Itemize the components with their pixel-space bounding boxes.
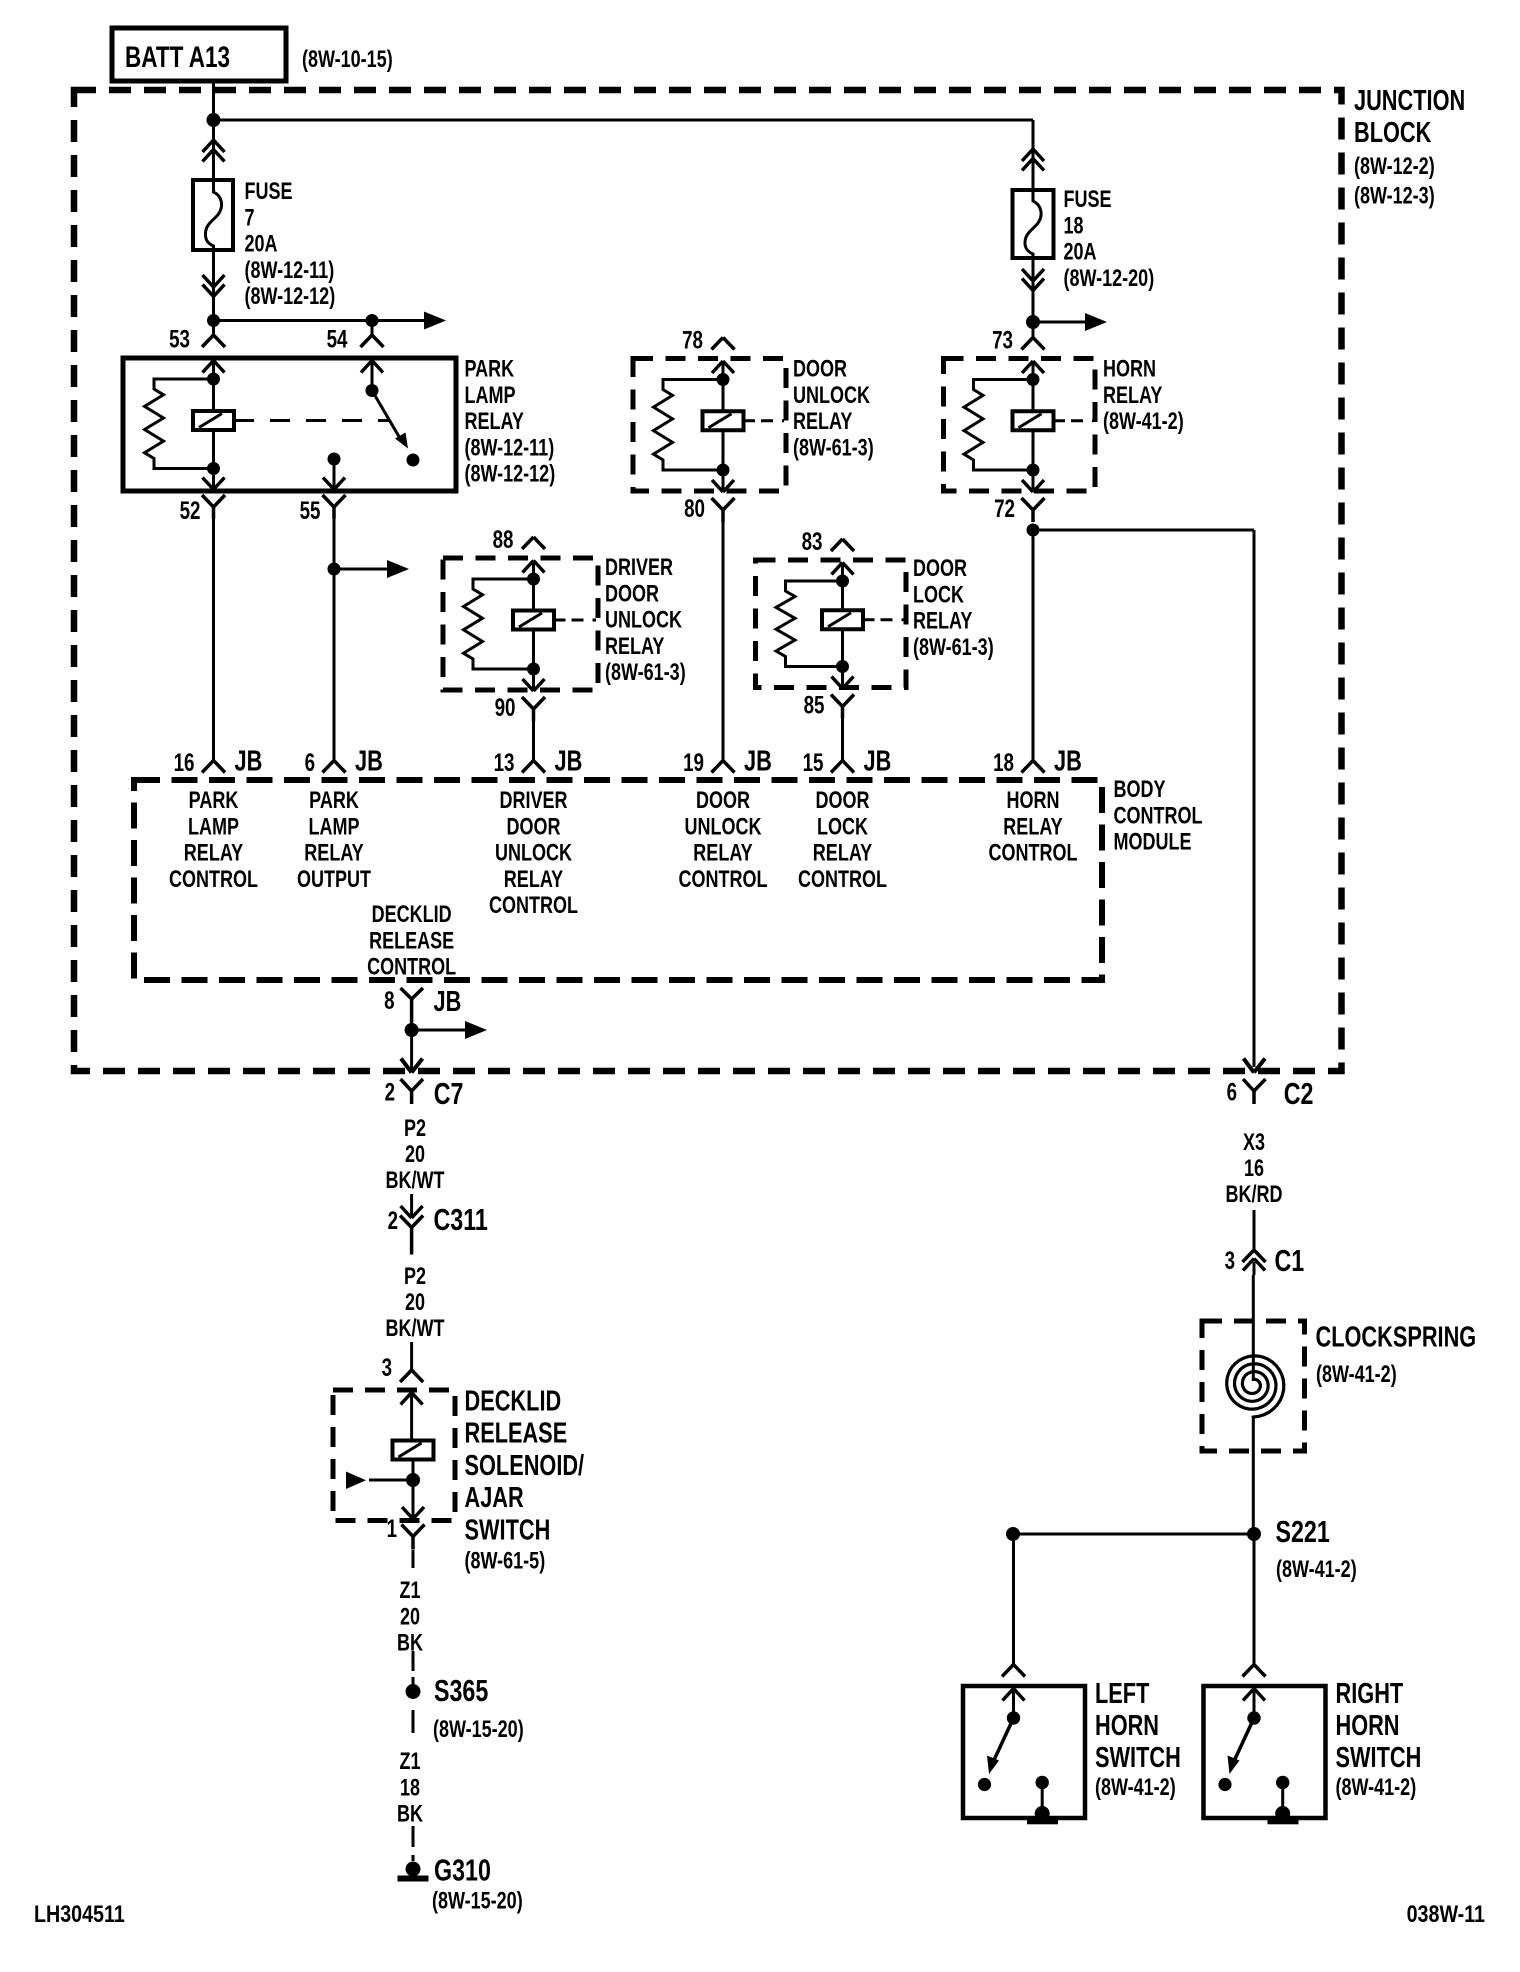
node left horn branch — [1006, 1527, 1020, 1541]
svg-text:RELAY: RELAY — [913, 608, 972, 635]
case ground — [1035, 1806, 1050, 1821]
svg-text:DOOR: DOOR — [507, 813, 561, 840]
svg-text:PARK: PARK — [189, 787, 239, 814]
svg-text:(8W-41-2): (8W-41-2) — [1276, 1556, 1357, 1583]
svg-text:FUSE: FUSE — [245, 178, 293, 205]
svg-text:(8W-15-20): (8W-15-20) — [432, 1888, 523, 1915]
junction block boundary — [74, 90, 1342, 1071]
svg-text:BK/WT: BK/WT — [386, 1315, 445, 1342]
svg-text:Z1: Z1 — [400, 1577, 421, 1604]
svg-text:BK: BK — [397, 1630, 423, 1657]
svg-text:15: 15 — [803, 749, 824, 777]
wire BATT A13 down — [212, 81, 215, 180]
svg-text:RELAY: RELAY — [793, 408, 852, 435]
switch contact — [1218, 1778, 1231, 1791]
svg-text:7: 7 — [245, 204, 255, 231]
wire — [1032, 361, 1035, 380]
svg-text:SWITCH: SWITCH — [465, 1514, 551, 1546]
svg-text:FUSE: FUSE — [1064, 186, 1112, 213]
svg-text:BK: BK — [397, 1801, 423, 1828]
connector C7 pin 2 — [401, 1059, 423, 1073]
svg-text:LH304511: LH304511 — [34, 1901, 125, 1928]
node battery bus — [207, 113, 221, 127]
wire fuse 7 to relay bus — [212, 250, 215, 335]
splice S221 — [1247, 1527, 1261, 1541]
ajar switch contact arrow — [369, 1479, 406, 1482]
svg-text:DRIVER: DRIVER — [500, 787, 568, 814]
svg-text:MODULE: MODULE — [1114, 829, 1192, 856]
pin 90 — [532, 669, 535, 691]
svg-text:(8W-12-12): (8W-12-12) — [245, 283, 336, 310]
svg-text:(8W-12-11): (8W-12-11) — [245, 257, 335, 284]
svg-text:AJAR: AJAR — [465, 1482, 524, 1514]
svg-text:6: 6 — [305, 749, 315, 777]
svg-text:HORN: HORN — [1103, 356, 1156, 383]
relay resistor — [464, 579, 534, 669]
svg-text:13: 13 — [494, 749, 515, 777]
svg-text:RELAY: RELAY — [605, 633, 664, 660]
node horn relay output — [1027, 524, 1040, 537]
svg-text:RIGHT: RIGHT — [1336, 1678, 1404, 1710]
svg-text:DECKLID: DECKLID — [372, 901, 452, 928]
node below fuse 18 — [1026, 315, 1040, 329]
relay coil node bottom — [717, 464, 730, 477]
svg-text:DOOR: DOOR — [793, 356, 847, 383]
node 53 bus — [207, 314, 220, 327]
coil linkage — [863, 618, 875, 621]
relay box — [756, 560, 907, 688]
svg-text:CONTROL: CONTROL — [679, 866, 768, 893]
svg-text:(8W-41-2): (8W-41-2) — [1316, 1361, 1397, 1388]
svg-text:JB: JB — [555, 746, 583, 778]
coil linkage — [554, 619, 566, 622]
wire segment — [412, 1826, 415, 1847]
svg-text:RELAY: RELAY — [693, 840, 752, 867]
relay coil — [1032, 380, 1035, 412]
svg-text:73: 73 — [992, 327, 1013, 355]
feed arrow right of node — [334, 568, 389, 571]
svg-text:(8W-61-3): (8W-61-3) — [793, 434, 874, 461]
svg-text:X3: X3 — [1243, 1129, 1265, 1156]
decklid pin 3 — [400, 1370, 423, 1382]
wire — [532, 561, 535, 580]
svg-text:RELAY: RELAY — [813, 840, 872, 867]
svg-text:S365: S365 — [434, 1673, 488, 1708]
decklid ajar switch node — [406, 1473, 420, 1487]
svg-text:20A: 20A — [245, 231, 278, 258]
svg-text:RELEASE: RELEASE — [465, 1418, 568, 1450]
park relay resistor — [145, 379, 214, 469]
svg-text:19: 19 — [683, 749, 704, 777]
ground G310 — [406, 1862, 421, 1877]
svg-text:85: 85 — [804, 692, 825, 720]
svg-text:OUTPUT: OUTPUT — [297, 866, 371, 893]
svg-text:RELAY: RELAY — [1103, 382, 1162, 409]
relay box — [944, 359, 1096, 492]
svg-text:RELAY: RELAY — [1003, 813, 1062, 840]
relay coil node bottom — [836, 660, 849, 673]
svg-text:JB: JB — [864, 746, 892, 778]
switch common — [1247, 1711, 1260, 1724]
relay coil — [532, 579, 535, 611]
svg-text:P2: P2 — [404, 1263, 426, 1290]
svg-text:(8W-61-3): (8W-61-3) — [913, 634, 994, 661]
pin 1 exit — [412, 1480, 415, 1517]
svg-text:(8W-41-2): (8W-41-2) — [1095, 1774, 1176, 1801]
svg-text:038W-11: 038W-11 — [1407, 1901, 1485, 1928]
svg-text:RELAY: RELAY — [184, 840, 243, 867]
pin 55 exit — [323, 478, 345, 490]
svg-text:SWITCH: SWITCH — [1336, 1742, 1422, 1774]
park relay switch arm — [372, 391, 401, 441]
svg-text:JB: JB — [235, 746, 263, 778]
svg-text:(8W-41-2): (8W-41-2) — [1336, 1774, 1417, 1801]
coil linkage dashed — [234, 419, 390, 422]
decklid release solenoid box — [333, 1390, 455, 1521]
svg-text:HORN: HORN — [1095, 1710, 1159, 1742]
svg-text:20: 20 — [400, 1603, 420, 1630]
connector arrows above fuse 18 — [1022, 149, 1044, 161]
BCM pin 8 JB — [401, 988, 424, 1030]
svg-text:DRIVER: DRIVER — [605, 554, 673, 581]
fuse F18 20A — [1013, 190, 1054, 258]
svg-text:DECKLID: DECKLID — [465, 1386, 562, 1418]
wire branch to pin 54 and feed arrow — [214, 319, 373, 322]
coil linkage — [1054, 419, 1066, 422]
relay coil node top — [717, 373, 730, 386]
svg-text:LAMP: LAMP — [309, 813, 360, 840]
pin 3 terminal inside — [401, 1393, 423, 1405]
svg-text:JB: JB — [355, 746, 383, 778]
svg-text:54: 54 — [327, 326, 348, 354]
decklid solenoid coil — [393, 1441, 434, 1460]
park relay coil node top — [207, 373, 220, 386]
case ground — [1275, 1806, 1290, 1821]
terminal inside — [1243, 1689, 1265, 1701]
svg-text:DOOR: DOOR — [816, 787, 870, 814]
pin 83 — [831, 539, 854, 551]
relay coil — [841, 581, 844, 610]
pin 53 terminal inside — [203, 361, 225, 373]
feed arrow right below fuse 18 — [1033, 321, 1087, 324]
BCM pin 6 JB — [323, 761, 346, 773]
svg-text:18: 18 — [993, 749, 1014, 777]
svg-text:JB: JB — [744, 746, 772, 778]
svg-text:16: 16 — [1244, 1155, 1264, 1182]
svg-text:80: 80 — [684, 495, 705, 523]
BCM pin 18 JB — [1022, 761, 1045, 773]
svg-text:P2: P2 — [404, 1115, 426, 1142]
park relay coil node bottom — [207, 462, 220, 475]
wire battery bus to fuse 18 — [214, 119, 1034, 122]
wire to C1 — [1253, 1210, 1256, 1250]
wire pin 55 to BCM 6 — [333, 519, 336, 761]
svg-text:(8W-12-3): (8W-12-3) — [1354, 183, 1435, 210]
svg-text:20: 20 — [405, 1141, 425, 1168]
pin 73 — [1032, 322, 1035, 338]
node decklid feed branch — [328, 563, 341, 576]
svg-text:83: 83 — [802, 528, 823, 556]
svg-text:UNLOCK: UNLOCK — [685, 813, 763, 840]
svg-text:(8W-15-20): (8W-15-20) — [433, 1716, 524, 1743]
connector C1 pin 3 — [1243, 1250, 1266, 1262]
svg-text:55: 55 — [300, 497, 321, 525]
svg-text:1: 1 — [387, 1515, 397, 1543]
svg-text:CONTROL: CONTROL — [367, 954, 456, 981]
svg-text:UNLOCK: UNLOCK — [793, 382, 871, 409]
wire — [841, 563, 844, 582]
relay coil node top — [527, 573, 540, 586]
svg-text:CONTROL: CONTROL — [169, 866, 258, 893]
svg-text:18: 18 — [1064, 212, 1084, 239]
svg-text:RELAY: RELAY — [465, 408, 524, 435]
relay resistor — [964, 380, 1033, 471]
splice S365 — [406, 1684, 421, 1699]
svg-text:Z1: Z1 — [400, 1748, 421, 1775]
relay coil node bottom — [527, 663, 540, 676]
relay coil node top — [1027, 373, 1040, 386]
svg-text:78: 78 — [682, 327, 703, 355]
svg-text:LAMP: LAMP — [188, 813, 239, 840]
wire to clockspring — [1252, 1275, 1255, 1381]
feed arrow right of pin 8 — [412, 1029, 467, 1032]
svg-text:2: 2 — [385, 1079, 395, 1107]
connector arrows below fuse 18 — [1022, 269, 1044, 281]
ground contact — [1036, 1776, 1049, 1789]
svg-text:(8W-61-3): (8W-61-3) — [605, 659, 686, 686]
BCM pin 16 JB — [202, 761, 225, 773]
svg-text:PARK: PARK — [465, 356, 515, 383]
svg-text:HORN: HORN — [1336, 1710, 1400, 1742]
wire segment — [412, 1550, 415, 1568]
svg-text:DOOR: DOOR — [913, 555, 967, 582]
svg-text:6: 6 — [1227, 1079, 1237, 1107]
relay coil — [722, 380, 725, 412]
svg-text:C7: C7 — [434, 1076, 464, 1111]
left horn switch pin — [1002, 1665, 1025, 1677]
wire pin 8 to C7 — [410, 1030, 413, 1070]
pin 88 — [522, 537, 545, 549]
wire clockspring to S221 — [1252, 1416, 1255, 1534]
terminal inside — [1003, 1689, 1025, 1701]
park relay switch common — [366, 384, 379, 397]
svg-text:LOCK: LOCK — [913, 581, 964, 608]
svg-text:CLOCKSPRING: CLOCKSPRING — [1316, 1322, 1477, 1354]
svg-text:(8W-12-11): (8W-12-11) — [465, 434, 555, 461]
svg-text:(8W-61-5): (8W-61-5) — [465, 1548, 546, 1575]
svg-text:BATT A13: BATT A13 — [125, 41, 230, 74]
park relay switch NO contact — [407, 454, 420, 467]
svg-text:SWITCH: SWITCH — [1095, 1742, 1181, 1774]
svg-text:3: 3 — [1225, 1247, 1235, 1275]
svg-text:72: 72 — [994, 495, 1015, 523]
svg-text:90: 90 — [495, 694, 516, 722]
node pin 8 — [405, 1023, 419, 1037]
switch arm — [995, 1718, 1014, 1759]
svg-text:JB: JB — [434, 986, 462, 1018]
svg-text:(8W-12-20): (8W-12-20) — [1064, 265, 1155, 292]
connector arrows above fuse 7 — [203, 140, 225, 152]
relay box — [633, 359, 786, 492]
relay box — [443, 558, 598, 690]
svg-text:20A: 20A — [1064, 239, 1097, 266]
svg-text:18: 18 — [400, 1774, 420, 1801]
svg-text:UNLOCK: UNLOCK — [605, 607, 683, 634]
switch arm — [1235, 1718, 1254, 1759]
switch contact — [978, 1778, 991, 1791]
svg-text:LEFT: LEFT — [1095, 1678, 1150, 1710]
svg-text:JUNCTION: JUNCTION — [1354, 85, 1465, 117]
svg-text:(8W-12-2): (8W-12-2) — [1354, 153, 1435, 180]
connector C2 pin 6 — [1244, 1059, 1266, 1073]
svg-text:CONTROL: CONTROL — [489, 892, 578, 919]
svg-text:53: 53 — [169, 326, 190, 354]
wire to left horn switch — [1012, 1534, 1015, 1665]
svg-text:RELEASE: RELEASE — [369, 927, 454, 954]
pin 52 exit — [212, 469, 215, 491]
wire pin 52 to BCM 16 — [212, 519, 215, 761]
svg-text:CONTROL: CONTROL — [798, 866, 887, 893]
svg-text:CONTROL: CONTROL — [989, 840, 1078, 867]
battery feed box BATT A13 — [112, 28, 286, 81]
wire S221 branch left — [1013, 1533, 1254, 1536]
BCM pin 15 JB — [831, 761, 854, 773]
svg-text:BK/WT: BK/WT — [386, 1167, 445, 1194]
svg-text:C1: C1 — [1275, 1243, 1305, 1278]
wire to right horn switch — [1253, 1534, 1256, 1665]
right horn switch pin — [1243, 1665, 1266, 1677]
svg-text:20: 20 — [405, 1289, 425, 1316]
svg-text:LOCK: LOCK — [817, 813, 868, 840]
svg-text:CONTROL: CONTROL — [1114, 802, 1203, 829]
fuse F7 20A — [193, 180, 233, 250]
park relay throw node — [328, 453, 341, 466]
BCM pin 19 JB — [712, 761, 735, 773]
park relay coil — [212, 379, 215, 411]
svg-text:16: 16 — [174, 749, 195, 777]
pin 78 — [712, 338, 735, 350]
switch common — [1007, 1711, 1020, 1724]
right horn switch box — [1204, 1686, 1326, 1818]
pin 72 — [1032, 470, 1035, 492]
wire segment — [412, 1710, 415, 1733]
body control module box — [134, 780, 1102, 980]
wire pin 85 to BCM 15 — [841, 719, 844, 761]
svg-text:RELAY: RELAY — [304, 840, 363, 867]
svg-text:88: 88 — [493, 526, 514, 554]
relay resistor — [776, 581, 843, 667]
wire pin 72 to BCM 18 — [1032, 530, 1035, 761]
svg-text:JB: JB — [1054, 746, 1082, 778]
svg-text:2: 2 — [388, 1207, 398, 1235]
svg-text:RELAY: RELAY — [504, 866, 563, 893]
svg-text:(8W-12-12): (8W-12-12) — [465, 461, 556, 488]
svg-text:BODY: BODY — [1114, 776, 1166, 803]
svg-text:8: 8 — [384, 987, 394, 1015]
svg-text:BLOCK: BLOCK — [1354, 117, 1431, 149]
svg-text:DOOR: DOOR — [605, 580, 659, 607]
connector C311 pin 2 — [401, 1206, 423, 1218]
svg-text:SOLENOID/: SOLENOID/ — [465, 1450, 585, 1482]
ground contact — [1276, 1776, 1289, 1789]
svg-text:3: 3 — [382, 1354, 392, 1382]
coil linkage — [744, 419, 756, 422]
clockspring box — [1202, 1321, 1305, 1451]
wire to C311 — [410, 1194, 413, 1218]
wire branch to C2 — [1033, 529, 1254, 532]
wire segment — [412, 1651, 415, 1671]
svg-text:LAMP: LAMP — [465, 382, 516, 409]
svg-text:G310: G310 — [434, 1853, 491, 1888]
node pin 54 branch — [366, 314, 379, 327]
relay coil node bottom — [1027, 464, 1040, 477]
svg-text:DOOR: DOOR — [696, 787, 750, 814]
connector arrows below fuse 7 — [203, 275, 225, 287]
svg-text:S221: S221 — [1276, 1514, 1330, 1549]
wire to decklid solenoid — [410, 1342, 413, 1370]
left horn switch box — [963, 1686, 1085, 1818]
feed arrow right — [372, 319, 426, 322]
relay coil node top — [836, 575, 849, 588]
wire — [722, 361, 725, 380]
clockspring coil spiral — [1227, 1356, 1284, 1418]
svg-text:C311: C311 — [434, 1202, 488, 1237]
wire pin 90 to BCM 13 — [532, 721, 535, 761]
pin 54 terminal inside — [361, 361, 383, 373]
BCM pin 13 JB — [522, 761, 545, 773]
pin 85 — [841, 667, 844, 689]
pin 80 — [722, 470, 725, 492]
svg-text:PARK: PARK — [309, 787, 359, 814]
svg-text:(8W-41-2): (8W-41-2) — [1103, 408, 1184, 435]
relay resistor — [654, 380, 724, 471]
svg-text:52: 52 — [180, 497, 201, 525]
svg-text:(8W-10-15): (8W-10-15) — [302, 46, 393, 73]
svg-text:BK/RD: BK/RD — [1226, 1181, 1283, 1208]
svg-text:C2: C2 — [1284, 1076, 1314, 1111]
svg-text:HORN: HORN — [1007, 787, 1060, 814]
svg-text:UNLOCK: UNLOCK — [495, 840, 573, 867]
wire pin 80 to BCM 19 — [722, 522, 725, 761]
park lamp relay box — [123, 358, 456, 491]
